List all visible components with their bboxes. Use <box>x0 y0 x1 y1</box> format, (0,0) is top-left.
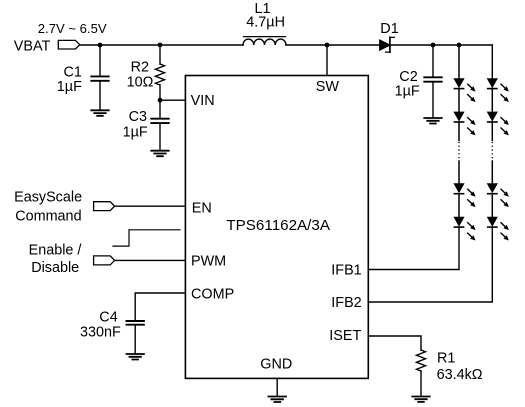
wire string2 top corner <box>491 45 493 78</box>
capacitor C1 <box>99 45 101 76</box>
wire PWM <box>115 259 186 261</box>
svg-text:TPS61162A/3A: TPS61162A/3A <box>226 217 330 234</box>
svg-text:C4: C4 <box>99 310 117 326</box>
node VBAT-C1 <box>98 43 103 48</box>
capacitor C4 <box>127 320 144 322</box>
node C2 <box>431 43 436 48</box>
node string1 top <box>457 43 462 48</box>
svg-text:D1: D1 <box>380 21 398 37</box>
node R2 top <box>158 43 163 48</box>
node EN input tag <box>94 202 115 211</box>
svg-text:330nF: 330nF <box>80 325 121 341</box>
svg-text:EN: EN <box>192 200 212 216</box>
svg-text:63.4kΩ: 63.4kΩ <box>437 367 483 383</box>
svg-text:GND: GND <box>260 357 292 373</box>
wire string1 dotted continuation <box>458 142 460 160</box>
ground GND <box>268 397 286 403</box>
op IC body TPS61162A/3A <box>185 76 368 379</box>
svg-text:Enable /: Enable / <box>29 243 82 259</box>
LED D24 <box>487 217 509 241</box>
capacitor C2 <box>432 45 434 76</box>
svg-text:PWM: PWM <box>191 253 226 269</box>
svg-text:SW: SW <box>316 79 340 95</box>
node VBAT input tag <box>58 40 80 49</box>
LED D11 <box>453 78 475 102</box>
diode D1 (Schottky) <box>380 40 390 50</box>
wire IFB2 <box>368 227 492 302</box>
LED D22 <box>487 112 509 136</box>
LED D23 <box>487 183 509 207</box>
svg-text:C3: C3 <box>129 109 147 125</box>
node VIN-C3 <box>158 98 163 103</box>
svg-text:2.7V ~ 6.5V: 2.7V ~ 6.5V <box>38 21 107 36</box>
inductor L1 <box>243 39 286 45</box>
svg-text:R2: R2 <box>131 59 149 75</box>
LED D12 <box>453 112 475 136</box>
svg-text:1µF: 1µF <box>123 125 148 141</box>
svg-text:Command: Command <box>15 209 81 225</box>
svg-text:1µF: 1µF <box>395 83 420 99</box>
svg-text:4.7µH: 4.7µH <box>246 15 285 31</box>
wire EN <box>115 205 186 207</box>
node SW <box>325 43 330 48</box>
ground C4 <box>127 354 144 360</box>
LED D14 <box>453 217 475 241</box>
svg-text:EasyScale: EasyScale <box>14 189 82 205</box>
waveform step symbol <box>113 230 180 246</box>
ground C2 <box>424 118 441 124</box>
LED D21 <box>487 78 509 102</box>
wire COMP <box>135 293 185 320</box>
svg-text:ISET: ISET <box>329 328 361 344</box>
LED D13 <box>453 183 475 207</box>
svg-text:1µF: 1µF <box>57 79 82 95</box>
wire top rail VBAT to L1 <box>80 44 243 46</box>
svg-text:10Ω: 10Ω <box>127 75 154 91</box>
svg-text:Disable: Disable <box>31 260 79 276</box>
node PWM input tag <box>94 256 115 265</box>
svg-text:IFB2: IFB2 <box>331 295 361 311</box>
wire L1 to D1 <box>286 44 380 46</box>
capacitor C3 <box>159 100 161 118</box>
resistor R2 <box>159 45 161 64</box>
svg-text:COMP: COMP <box>191 287 234 303</box>
wire IFB1 <box>368 227 459 269</box>
wire ISET <box>368 336 421 350</box>
ground C3 <box>151 151 168 157</box>
svg-text:IFB1: IFB1 <box>331 262 361 278</box>
ground C1 <box>91 110 108 116</box>
LED string 1 wires <box>458 45 460 217</box>
LED string 2 wires <box>491 89 493 217</box>
wire GND pin <box>276 378 278 395</box>
resistor R1 <box>417 350 426 371</box>
junction dots <box>98 43 462 103</box>
ground R1 <box>412 397 429 402</box>
wire D1 to LED strings <box>391 44 493 46</box>
svg-text:VIN: VIN <box>191 93 215 109</box>
wire string2 dotted continuation <box>491 142 493 160</box>
svg-text:VBAT: VBAT <box>14 39 51 55</box>
wire VIN <box>160 99 185 101</box>
wire SW vertical <box>326 45 328 76</box>
svg-text:R1: R1 <box>437 351 455 367</box>
